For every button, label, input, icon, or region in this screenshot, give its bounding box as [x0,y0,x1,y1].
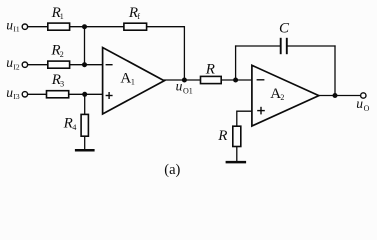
wire A2 output to terminal uO [318,95,360,97]
wire Rf to corner [147,26,185,28]
wire R to A2 inverting input [221,79,252,81]
wire inverting node up to C [235,45,237,80]
caption (a) [164,162,180,178]
wire uI3 to R3 [28,93,47,95]
noninverting node junction dot [82,92,87,97]
resistor R2 [48,61,70,68]
svg-text:2: 2 [60,50,64,59]
resistor R (series) [201,76,222,83]
label A1 [120,71,134,87]
wire C top right segment [287,45,336,47]
wire C right vertical down to output node [334,45,336,95]
svg-text:I1: I1 [13,25,19,34]
op-amp A1 [103,48,165,115]
svg-text:u: u [356,96,363,111]
input terminal uI2 [22,62,27,67]
svg-text:O: O [364,104,370,113]
svg-text:u: u [6,17,13,32]
wire uI1 to R1 [28,26,48,28]
node A junction dot [82,24,87,29]
ground (A2) [226,161,247,164]
label Rf [128,5,141,21]
label R4 [63,115,77,131]
wire C top left segment [235,45,281,47]
wire A1 output to R [164,79,201,81]
ground (R4) [75,149,95,152]
wire R4 to ground [84,136,86,149]
label R (series) [205,62,215,78]
svg-text:1: 1 [131,78,135,87]
label uI3 [6,85,20,101]
wire node down to R4 [84,94,86,115]
svg-text:u: u [6,85,13,100]
A1 plus pin [106,92,113,99]
label R3 [51,72,64,88]
svg-text:4: 4 [72,123,76,132]
wire R to ground [236,147,238,162]
wire R1 to node A [70,26,124,28]
output node junction dot [333,93,338,98]
wire uI2 to R2 [28,64,48,66]
wire R3 to A1 noninverting input [69,93,103,95]
A1 minus pin [106,64,113,66]
output terminal uO [361,93,366,98]
wire feedback vertical down to uO1 node [183,26,185,80]
node uO1 junction dot [182,78,187,83]
wire node A down to inverting node [84,27,86,65]
svg-text:1: 1 [60,12,64,21]
svg-text:u: u [176,78,183,93]
svg-text:u: u [6,55,13,70]
svg-text:O1: O1 [183,86,193,95]
A2 minus pin [257,79,265,81]
resistor R4 [81,114,88,136]
A2 plus pin [257,107,265,115]
label uO [356,96,369,113]
resistor Rf [124,23,147,30]
label R (A2 noninverting) [217,128,227,144]
label R2 [50,43,63,59]
label uI1 [6,17,20,33]
label uO1 [176,78,193,95]
inverting node junction dot [82,62,87,67]
resistor R1 [48,23,70,30]
svg-text:R: R [63,115,73,131]
svg-text:(a): (a) [164,162,180,178]
capacitor C [281,38,287,54]
input terminal uI1 [22,24,27,29]
label A2 [270,86,284,102]
svg-text:I3: I3 [13,92,19,101]
wire A2 plus input to R [237,111,252,126]
resistor R (A2 noninverting) [233,126,241,146]
svg-text:R: R [205,62,215,78]
svg-text:A: A [120,71,131,87]
label R1 [51,5,64,21]
label uI2 [6,55,20,71]
svg-text:3: 3 [60,80,64,89]
svg-text:C: C [279,21,290,37]
svg-text:2: 2 [280,93,284,102]
wire R2 to A1 inverting input [70,64,103,66]
svg-text:I2: I2 [13,63,19,72]
svg-text:f: f [137,12,140,21]
input terminal uI3 [22,92,27,97]
label C [279,21,290,37]
A2 inverting node junction dot [233,78,238,83]
svg-text:R: R [217,128,227,144]
resistor R3 [47,91,69,98]
op-amp A2 [252,65,319,126]
